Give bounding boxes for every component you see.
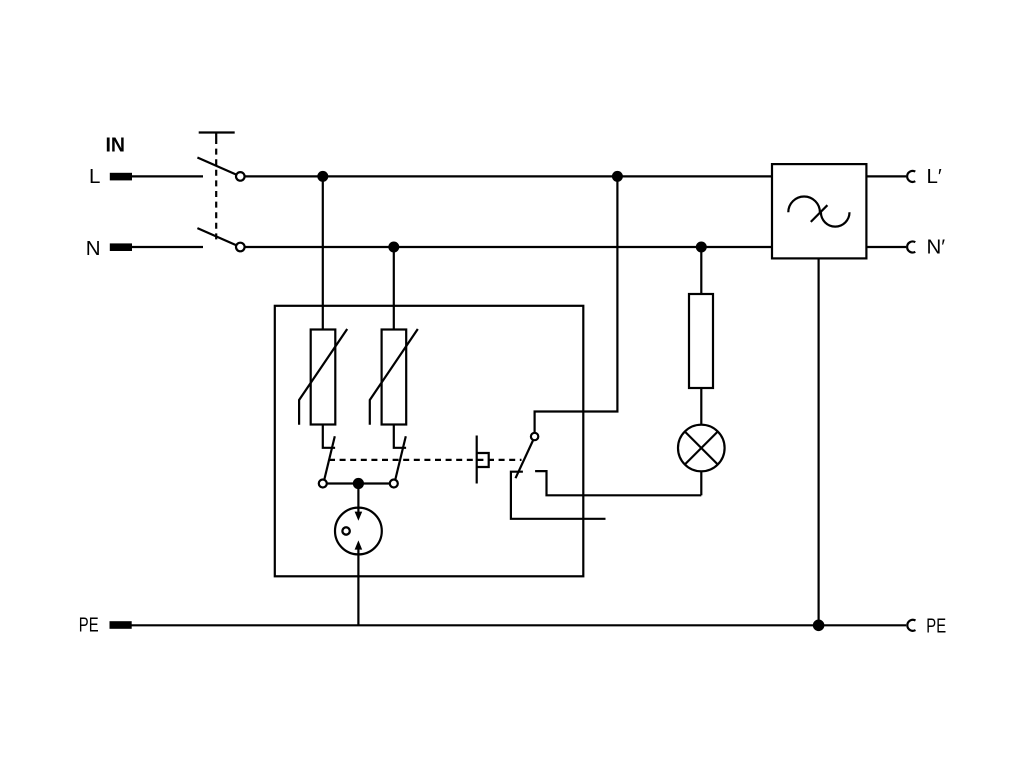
switch S1 linkage bar — [199, 133, 235, 139]
disconnector D1 fixed contact — [323, 425, 335, 448]
disconnector D1 moving contact circle — [319, 480, 327, 488]
wire N input — [132, 246, 204, 248]
svg-text:L: L — [89, 165, 100, 188]
disconnector D1 blade — [324, 436, 335, 480]
wire lamp bottom — [700, 471, 702, 495]
switch S1 pole N contact circle — [236, 243, 245, 252]
wire N junction to varistor RV2 — [393, 247, 395, 330]
varistor RV2 body — [382, 330, 407, 425]
terminal PE right — [907, 620, 915, 631]
fuse F1 body — [689, 294, 713, 388]
lamp H1 — [678, 425, 725, 472]
wire PE — [132, 624, 907, 626]
disconnector D2 moving contact circle — [390, 480, 398, 488]
terminal N' — [907, 242, 915, 253]
filter U1 box — [772, 164, 866, 258]
actuator stem — [476, 436, 478, 484]
wire N to filter — [245, 246, 772, 248]
disconnector D2 fixed contact — [394, 425, 406, 448]
varistor RV2 strike — [370, 329, 418, 425]
disconnector D2 blade — [395, 436, 406, 480]
varistor RV1 body — [311, 330, 336, 425]
socket arrow down — [357, 489, 359, 515]
junction node PE — [813, 620, 825, 632]
varistor RV1 strike — [299, 329, 347, 425]
terminal N — [110, 243, 132, 251]
switch S2 blade — [516, 440, 534, 478]
svg-text:PE: PE — [926, 614, 946, 637]
junction node N-fuse branch — [696, 242, 707, 253]
wire fuse top — [700, 247, 702, 294]
mechanical dashed link disconnectors to actuator to switch S2 — [329, 459, 522, 461]
filter U1 sine symbol — [788, 197, 820, 213]
socket arrow up wire to PE — [357, 547, 359, 625]
svg-text:N′: N′ — [927, 236, 946, 259]
socket circle — [335, 508, 382, 555]
switch S1 pole L blade — [197, 158, 236, 175]
switch S1 pole N blade — [197, 228, 236, 245]
junction node N-varistor branch — [388, 242, 399, 253]
terminal PE — [110, 621, 132, 629]
actuator button bracket — [477, 453, 489, 467]
junction node L-switch branch — [612, 171, 623, 182]
wire L output — [866, 175, 906, 177]
svg-text:PE: PE — [79, 613, 99, 636]
wire L to filter — [245, 175, 772, 177]
junction node disconnector common — [353, 478, 364, 489]
svg-text:N: N — [86, 237, 101, 260]
wire fuse to lamp — [700, 388, 702, 425]
switch S2 contact b wire to lamp — [535, 471, 701, 495]
wire L input — [132, 175, 204, 177]
svg-text:L′: L′ — [927, 165, 942, 188]
wire disconnector common — [323, 482, 394, 484]
switch S2 contact a with stub wire — [511, 472, 606, 519]
terminal L — [110, 173, 132, 181]
terminal L' — [907, 171, 915, 182]
wire filter to PE — [817, 258, 819, 625]
wire L junction to varistor RV1 — [322, 176, 324, 329]
switch S2 pivot circle — [531, 433, 538, 440]
switch S1 linkage dashed link — [215, 138, 217, 240]
module box — [275, 306, 584, 577]
wire L branch to switch S2 — [535, 176, 618, 432]
wire N output — [866, 246, 906, 248]
switch S1 pole L contact circle — [236, 172, 245, 181]
socket inner contact — [342, 527, 349, 534]
svg-text:IN: IN — [106, 134, 126, 157]
junction node L-varistor branch — [317, 171, 328, 182]
